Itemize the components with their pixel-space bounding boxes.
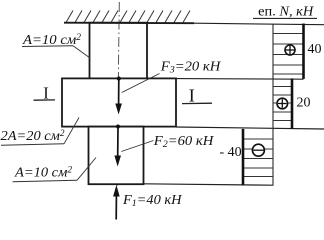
bottom column (A=10) xyxy=(89,127,144,185)
force F2 arrow xyxy=(114,125,121,167)
top column (A=10) xyxy=(90,23,148,79)
svg-text:20: 20 xyxy=(297,95,311,110)
svg-text:- 40: - 40 xyxy=(220,145,242,160)
centerline (dash-dot axis) xyxy=(117,2,119,186)
force F1 arrow (upward from below) xyxy=(113,185,120,220)
svg-text:2A=20 см2: 2A=20 см2 xyxy=(1,128,66,144)
wire: leader 2A xyxy=(64,118,79,144)
wire: leader F2 xyxy=(121,141,153,152)
N diagram block +20 xyxy=(273,87,292,121)
svg-text:еп. N, кН: еп. N, кН xyxy=(258,5,314,20)
wire: leader F3 xyxy=(122,74,160,93)
minus sign circle (-40) xyxy=(252,144,264,156)
wire: projection line top (ceiling to diagram, to right edge) xyxy=(194,23,324,25)
svg-text:40: 40 xyxy=(308,42,322,57)
force F3 arrow xyxy=(115,77,122,115)
N diagram block -40 xyxy=(242,139,273,177)
N diagram baseline xyxy=(272,25,274,186)
wire: projection line at F3 level to diagram xyxy=(176,78,304,81)
wire: leader A bottom xyxy=(77,158,96,181)
N diagram block +40 xyxy=(273,34,304,75)
plus sign circle (+40) xyxy=(285,45,295,55)
svg-text:F2=60 кН: F2=60 кН xyxy=(153,134,214,150)
svg-text:A=10 см2: A=10 см2 xyxy=(14,165,73,181)
svg-text:F1=40 кН: F1=40 кН xyxy=(122,193,182,209)
wire: leader A top xyxy=(73,46,90,58)
svg-text:I: I xyxy=(189,85,195,105)
plus sign circle (+20) xyxy=(277,98,288,109)
ceiling hatching xyxy=(66,11,190,23)
ceiling line xyxy=(64,22,194,25)
wire: projection line at F2 level to diagram (to right edge) xyxy=(176,127,324,129)
svg-text:F3=20 кН: F3=20 кН xyxy=(160,60,221,76)
wire: projection line at bar bottom to diagram xyxy=(144,184,274,185)
middle wide segment (2A=20) xyxy=(62,78,176,126)
